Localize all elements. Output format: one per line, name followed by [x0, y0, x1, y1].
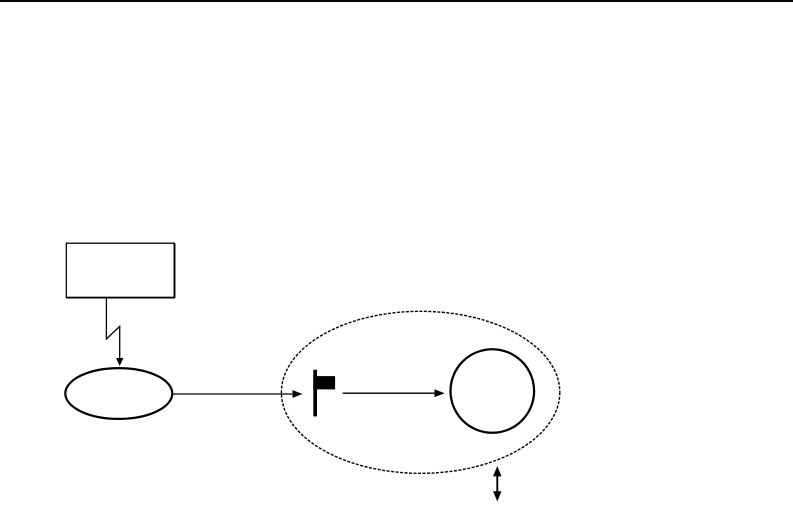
- lightning event arrow: [106, 298, 123, 366]
- wire arrow 2: [343, 389, 445, 397]
- wire arrow 1: [174, 390, 303, 398]
- dashed boundary ellipse: [281, 311, 559, 473]
- double arrow: [493, 466, 501, 502]
- top rule bar: [0, 0, 793, 2]
- state circle: [451, 349, 535, 433]
- oval state: [65, 368, 172, 419]
- process box: [66, 243, 175, 298]
- flag: [313, 370, 335, 417]
